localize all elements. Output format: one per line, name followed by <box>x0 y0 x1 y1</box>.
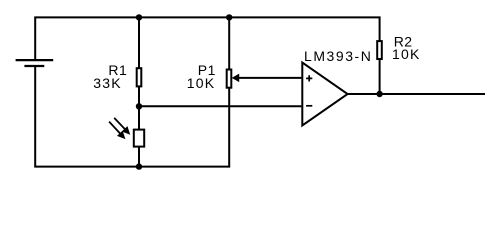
wire LDR bottom lead <box>138 147 140 167</box>
battery long plate (positive) <box>16 59 54 61</box>
op-amp minus sign <box>306 105 312 107</box>
junction node A (R1/LDR) <box>136 103 142 109</box>
op-amp plus sign <box>306 75 312 81</box>
wire bottom rail right segment up to P1 <box>139 88 229 167</box>
svg-text:10K: 10K <box>187 75 216 91</box>
wire P1 wiper to op-amp non-inverting input <box>238 77 301 79</box>
junction dot output R2 <box>376 91 382 97</box>
op-amp U1 LM393-N <box>302 63 347 126</box>
battery short plate (negative) <box>24 65 44 67</box>
light arrow 1 <box>114 118 129 134</box>
wire node A to op-amp inverting input <box>139 105 301 107</box>
wire battery positive to top rail (left segment) <box>35 17 139 60</box>
svg-text:33K: 33K <box>93 75 122 91</box>
wire LDR top lead <box>138 106 140 130</box>
wire battery negative to bottom rail (left segment) <box>35 66 139 167</box>
wire R2 bottom lead to output <box>379 59 381 94</box>
wire R1 bottom lead to node <box>138 86 140 106</box>
wire top rail middle segment <box>139 16 229 18</box>
resistor R2 <box>377 41 382 59</box>
light arrow 2 <box>109 122 125 139</box>
junction dot top rail P1 <box>226 14 232 20</box>
wire top rail right segment down to R2 <box>229 17 379 41</box>
wire P1 top lead <box>228 17 230 70</box>
P1 wiper arrow <box>233 75 239 82</box>
resistor R1 <box>137 68 142 86</box>
junction dot bottom rail <box>136 163 142 169</box>
wire R1 top lead <box>138 17 140 69</box>
potentiometer P1 <box>227 70 232 88</box>
wire op-amp output <box>348 93 485 95</box>
junction dot top rail R1 <box>136 14 142 20</box>
svg-text:10K: 10K <box>392 46 421 62</box>
svg-text:LM393-N: LM393-N <box>304 48 372 64</box>
photoresistor LDR <box>134 130 144 147</box>
